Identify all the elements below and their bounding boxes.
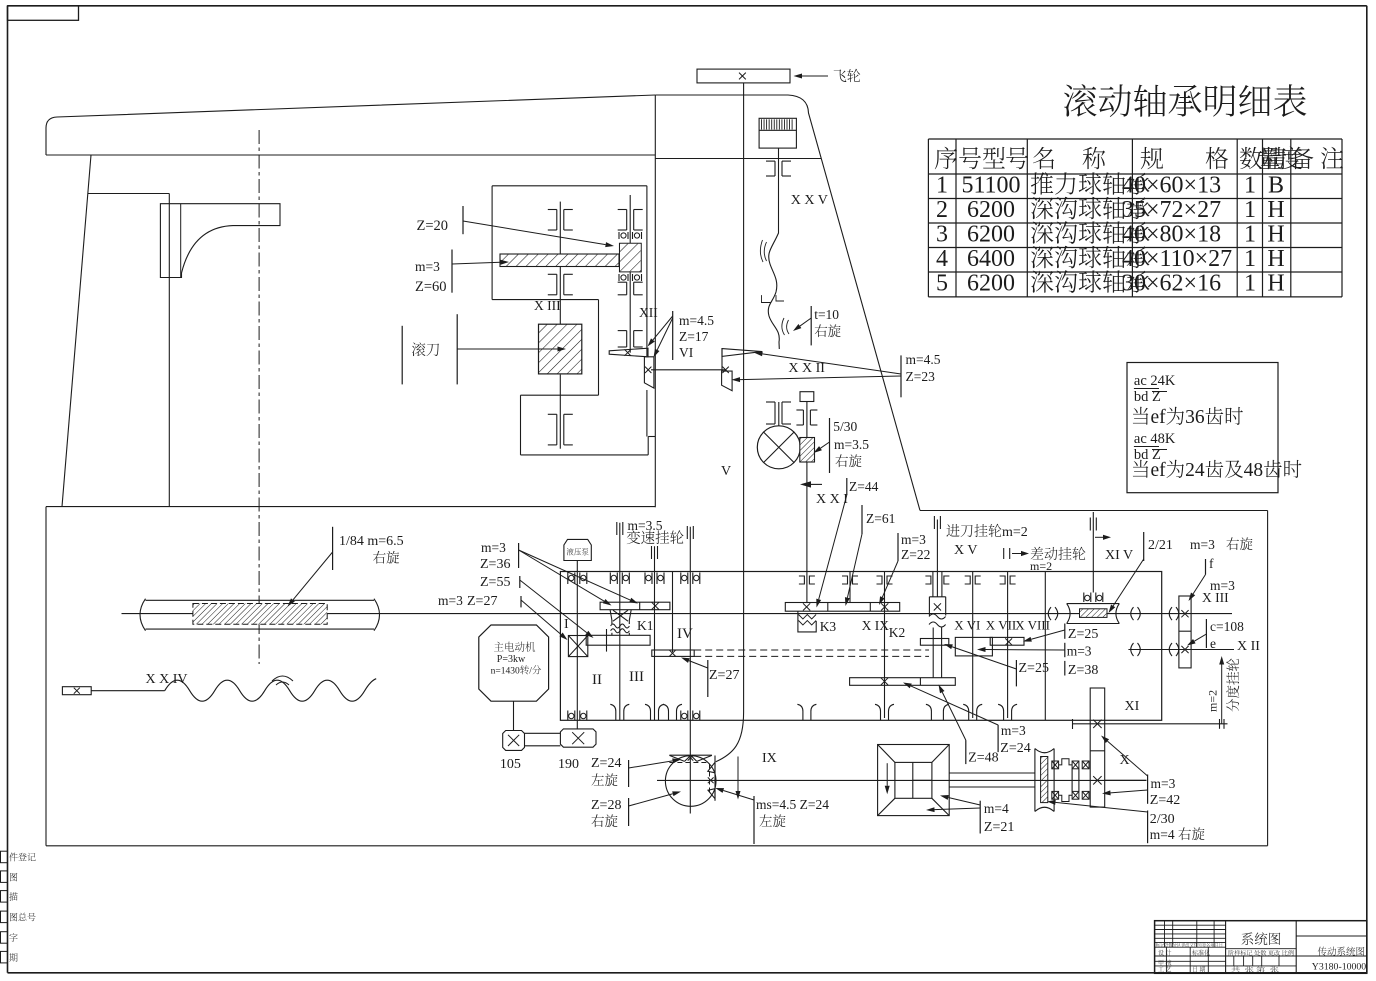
svg-text:Z=25: Z=25 (1019, 661, 1049, 676)
svg-text:系统图: 系统图 (1241, 928, 1282, 948)
svg-text:号型: 号型 (958, 139, 1006, 174)
svg-text:51100: 51100 (961, 173, 1020, 199)
svg-text:滚刀: 滚刀 (411, 339, 440, 360)
svg-text:X III: X III (1202, 590, 1229, 605)
svg-text:Z=44: Z=44 (849, 479, 879, 494)
svg-text:当ef为24齿及48齿时: 当ef为24齿及48齿时 (1131, 454, 1302, 482)
svg-text:IX: IX (762, 751, 777, 766)
svg-text:K3: K3 (820, 619, 837, 634)
svg-text:VI: VI (679, 345, 694, 360)
svg-text:X III: X III (534, 298, 561, 313)
svg-text:左旋: 左旋 (759, 810, 786, 830)
svg-text:m=3: m=3 (1190, 537, 1215, 552)
svg-text:H: H (1267, 222, 1284, 248)
svg-text:Z=38: Z=38 (1068, 663, 1098, 678)
svg-text:III: III (629, 669, 644, 685)
svg-text:分度挂轮: 分度挂轮 (1222, 658, 1242, 712)
svg-text:右旋: 右旋 (835, 450, 862, 470)
svg-text:滚动轴承明细表: 滚动轴承明细表 (1062, 75, 1307, 125)
svg-text:Z=42: Z=42 (1150, 793, 1180, 808)
svg-text:右旋: 右旋 (1226, 533, 1253, 553)
svg-text:4: 4 (936, 246, 948, 272)
svg-text:m=3: m=3 (415, 259, 440, 274)
svg-text:右旋: 右旋 (814, 320, 841, 340)
svg-text:图: 图 (9, 870, 18, 883)
svg-text:序: 序 (934, 139, 958, 174)
svg-text:共 张 第 张: 共 张 第 张 (1231, 966, 1280, 974)
svg-text:5: 5 (936, 271, 948, 297)
svg-text:X X IV: X X IV (146, 672, 188, 687)
svg-text:6200: 6200 (967, 222, 1015, 248)
svg-text:m=3: m=3 (1067, 644, 1092, 659)
svg-text:ac 24K: ac 24K (1134, 373, 1176, 389)
svg-text:H: H (1267, 197, 1284, 223)
svg-text:1: 1 (936, 173, 948, 199)
svg-text:V: V (721, 464, 731, 479)
svg-text:X V: X V (954, 543, 977, 558)
svg-text:e: e (1210, 636, 1216, 651)
svg-text:190: 190 (558, 757, 579, 772)
svg-text:Z=48: Z=48 (968, 751, 998, 766)
svg-text:XII: XII (639, 305, 658, 320)
svg-text:2/30: 2/30 (1150, 812, 1175, 827)
svg-text:m=3: m=3 (1001, 723, 1026, 738)
svg-text:日 期: 日 期 (1192, 965, 1206, 974)
svg-text:进刀挂轮m=2: 进刀挂轮m=2 (946, 523, 1028, 540)
svg-text:左旋: 左旋 (591, 769, 618, 789)
svg-text:X X V: X X V (791, 193, 828, 208)
svg-text:X: X (1120, 753, 1130, 768)
svg-text:6400: 6400 (967, 246, 1015, 272)
svg-text:飞轮: 飞轮 (833, 66, 861, 86)
svg-text:m=4.5: m=4.5 (679, 313, 714, 328)
svg-text:30×62×16: 30×62×16 (1122, 271, 1221, 297)
svg-text:号: 号 (1005, 139, 1029, 174)
svg-text:1: 1 (1244, 173, 1256, 199)
svg-text:I: I (564, 617, 569, 632)
svg-text:阶样标记 处数 更改 比例: 阶样标记 处数 更改 比例 (1228, 949, 1294, 957)
svg-text:Z=23: Z=23 (906, 369, 936, 384)
svg-text:m=4.5: m=4.5 (906, 352, 941, 367)
svg-text:右旋: 右旋 (373, 547, 400, 567)
svg-text:Z=55: Z=55 (480, 575, 510, 590)
svg-text:105: 105 (500, 757, 521, 772)
svg-text:Z=20: Z=20 (417, 218, 449, 234)
svg-text:Z=60: Z=60 (415, 279, 447, 295)
svg-text:H: H (1267, 271, 1284, 297)
svg-text:标准化: 标准化 (1192, 948, 1210, 957)
svg-text:描: 描 (9, 890, 18, 903)
svg-text:X IX: X IX (862, 618, 890, 633)
svg-text:B: B (1268, 173, 1284, 199)
svg-text:传动系统图: 传动系统图 (1317, 944, 1365, 958)
svg-text:ac 48K: ac 48K (1134, 431, 1176, 447)
svg-text:2/21: 2/21 (1148, 538, 1173, 553)
svg-text:m=3: m=3 (1151, 776, 1176, 791)
svg-text:当ef为36齿时: 当ef为36齿时 (1131, 401, 1244, 429)
svg-text:Y3180-10000: Y3180-10000 (1312, 961, 1367, 972)
svg-text:Z=25: Z=25 (1068, 627, 1098, 642)
svg-text:II: II (592, 672, 602, 688)
svg-text:格: 格 (1205, 139, 1229, 174)
svg-text:Z=27: Z=27 (467, 594, 497, 609)
svg-text:液压泵: 液压泵 (566, 547, 589, 558)
svg-text:X X II: X X II (788, 361, 825, 376)
svg-text:6200: 6200 (967, 197, 1015, 223)
svg-text:f: f (1209, 556, 1214, 571)
svg-text:c=108: c=108 (1210, 619, 1244, 634)
svg-text:m=4 右旋: m=4 右旋 (1150, 827, 1205, 842)
svg-text:件登记: 件登记 (9, 851, 36, 864)
svg-text:X VIII: X VIII (1015, 618, 1050, 633)
svg-text:设 计: 设 计 (1158, 948, 1172, 957)
svg-text:注: 注 (1320, 139, 1344, 174)
svg-text:X VI: X VI (954, 618, 980, 633)
svg-text:m=3: m=3 (901, 532, 926, 547)
svg-text:X VII: X VII (986, 618, 1016, 633)
svg-text:H: H (1267, 246, 1284, 272)
svg-text:5/30: 5/30 (833, 419, 857, 434)
svg-text:Z=36: Z=36 (480, 557, 510, 572)
svg-text:K1: K1 (637, 618, 654, 633)
svg-text:1: 1 (1244, 222, 1256, 248)
svg-text:IV: IV (677, 626, 693, 642)
svg-text:m=4: m=4 (984, 801, 1009, 816)
svg-text:主电动机: 主电动机 (494, 640, 536, 655)
svg-text:Z=61: Z=61 (866, 511, 895, 526)
svg-text:2: 2 (936, 197, 948, 223)
svg-text:备: 备 (1290, 139, 1314, 174)
svg-text:Z=17: Z=17 (679, 329, 709, 344)
svg-text:6200: 6200 (967, 271, 1015, 297)
svg-text:字: 字 (9, 931, 18, 944)
svg-text:变速挂轮: 变速挂轮 (626, 527, 684, 548)
svg-text:P=3kw: P=3kw (497, 654, 526, 665)
svg-text:期: 期 (9, 951, 18, 964)
svg-text:XI: XI (1125, 699, 1140, 714)
svg-text:X II: X II (1237, 639, 1260, 654)
svg-text:Z=21: Z=21 (984, 820, 1014, 835)
svg-text:1: 1 (1244, 246, 1256, 272)
svg-text:右旋: 右旋 (591, 810, 618, 830)
svg-text:图总号: 图总号 (9, 911, 36, 924)
svg-text:1: 1 (1244, 197, 1256, 223)
svg-text:X X I: X X I (816, 492, 848, 507)
svg-text:XI V: XI V (1105, 548, 1133, 563)
svg-text:m=2: m=2 (1206, 690, 1220, 712)
svg-text:Z=24: Z=24 (1000, 741, 1030, 756)
svg-text:工 艺: 工 艺 (1158, 965, 1172, 974)
svg-text:Z=27: Z=27 (709, 668, 739, 683)
svg-text:1: 1 (1244, 271, 1256, 297)
svg-text:K2: K2 (889, 625, 906, 640)
svg-text:m=3: m=3 (481, 540, 506, 555)
svg-text:Z=22: Z=22 (901, 547, 930, 562)
svg-text:3: 3 (936, 222, 948, 248)
svg-text:n=1430转/分: n=1430转/分 (491, 665, 542, 677)
svg-text:m=3: m=3 (438, 593, 463, 608)
svg-text:m=2: m=2 (1030, 559, 1052, 573)
